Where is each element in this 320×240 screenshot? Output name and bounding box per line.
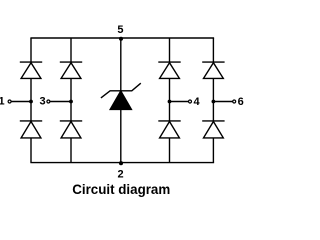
wire top rail (node 5) [30, 37, 214, 39]
svg-text:5: 5 [117, 24, 123, 36]
svg-text:3: 3 [39, 96, 45, 108]
svg-text:Circuit diagram: Circuit diagram [72, 181, 170, 197]
diode D4 bottom (column 4) [202, 121, 224, 138]
svg-text:1: 1 [0, 96, 5, 108]
wire column 2 segments [70, 38, 72, 62]
junction pin 3 [69, 100, 73, 104]
svg-text:4: 4 [194, 96, 201, 108]
diode D1 top (column 1) [20, 62, 42, 78]
junction pin 6 [212, 100, 216, 104]
junction pin 4 [168, 100, 172, 104]
svg-text:6: 6 [238, 96, 244, 108]
wire pin 1 lead [11, 101, 31, 103]
wire pin 4 lead [170, 101, 189, 103]
pin 1 terminal circle [8, 100, 11, 103]
wire column 4 segments [212, 38, 214, 62]
diode D1 bottom (column 1) [20, 121, 42, 138]
junction node 5 (top) [119, 37, 123, 41]
svg-text:2: 2 [117, 168, 123, 180]
wire pin 3 lead [50, 101, 71, 103]
pin 6 terminal circle [233, 100, 236, 103]
wire column 1 segments [30, 38, 32, 62]
wire column 3 segments [169, 38, 171, 62]
wire bottom rail (node 2) [30, 162, 214, 164]
diode D3 bottom (column 3) [158, 121, 180, 138]
diode D2 bottom (column 2) [60, 121, 82, 138]
junction pin 1 [29, 100, 33, 104]
diode D4 top (column 4) [202, 62, 224, 78]
wire center column segments [120, 38, 122, 91]
diode D3 top (column 3) [158, 62, 180, 78]
zener diode DZ (center TVS) [101, 83, 141, 109]
diode D2 top (column 2) [60, 62, 82, 78]
pin 3 terminal circle [47, 100, 50, 103]
junction node 2 (bottom) [119, 161, 123, 165]
pin 4 terminal circle [189, 100, 192, 103]
wire pin 6 lead [213, 101, 232, 103]
